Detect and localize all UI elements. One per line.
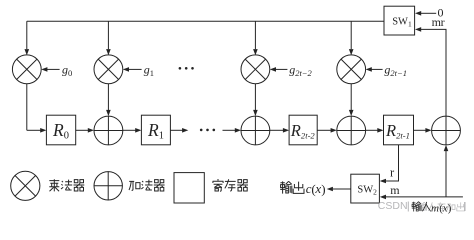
svg-text:): ) — [448, 203, 452, 215]
svg-text:m: m — [390, 183, 400, 197]
svg-text:CSDN: CSDN — [378, 200, 408, 212]
svg-text:m: m — [431, 202, 439, 214]
svg-text:mr: mr — [432, 15, 445, 29]
svg-text:): ) — [321, 181, 325, 196]
